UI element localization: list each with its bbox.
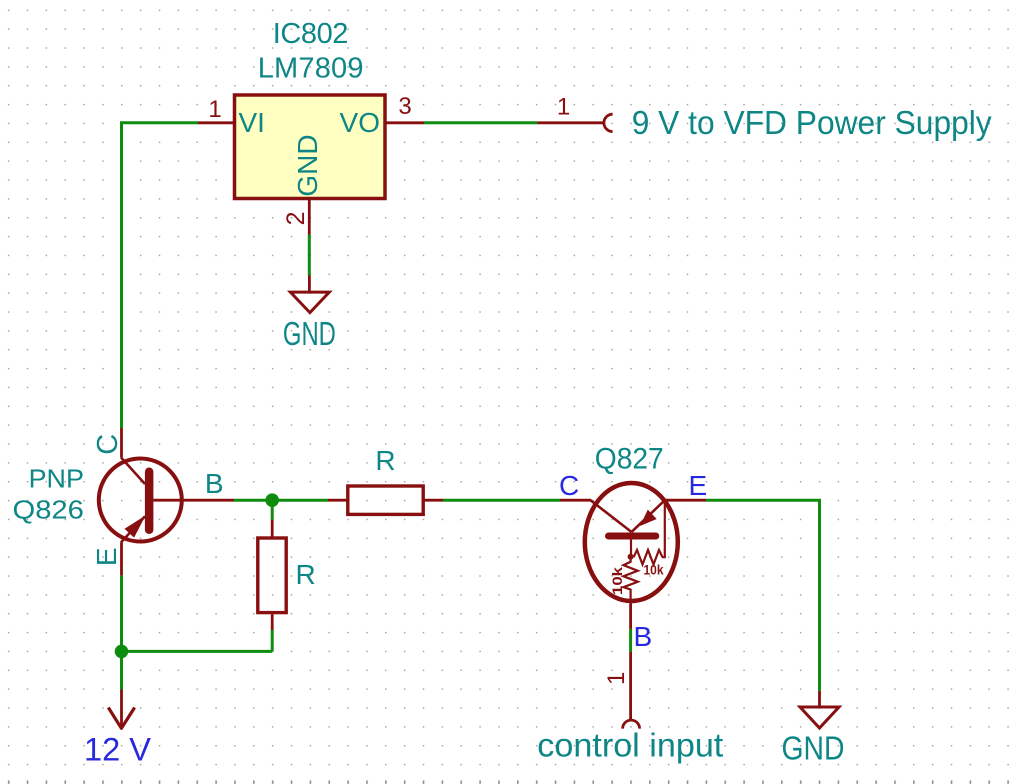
svg-text:C: C [92, 434, 124, 455]
output connector pin (9V) [538, 114, 613, 131]
svg-text:Q827: Q827 [595, 443, 664, 476]
pin 1 VI stub [198, 121, 234, 124]
ground symbol right [800, 691, 839, 728]
wire bottom rail junction to resistor leg [122, 650, 273, 653]
Q827 collector pin [560, 499, 591, 502]
svg-text:VO: VO [340, 107, 380, 138]
regulator U IC802 body [235, 95, 386, 199]
Q826 collector pin [120, 428, 123, 457]
Q827 body ellipse [585, 483, 678, 601]
transistor Q827 (digital PNP with resistors) [560, 483, 706, 629]
wire junction to vertical resistor top [271, 500, 274, 520]
Q827 collector diagonal [591, 500, 632, 532]
wire from VI pin to Q826 collector [122, 123, 199, 428]
svg-text:VI: VI [239, 107, 265, 138]
Q827 emitter internal vertical line [662, 500, 665, 557]
svg-text:1: 1 [603, 672, 630, 685]
Q826 collector diagonal [121, 457, 145, 484]
svg-text:3: 3 [398, 93, 411, 120]
svg-text:E: E [91, 547, 122, 566]
wire horizontal resistor to Q827 collector [443, 499, 560, 502]
Q826 base pin [153, 499, 234, 502]
svg-text:PNP: PNP [29, 464, 84, 494]
resistor R (horizontal) [328, 486, 443, 514]
wire vertical resistor bottom to bottom rail [271, 630, 274, 651]
Q827 emitter diagonal [632, 500, 665, 532]
Q826 emitter arrow [125, 516, 146, 538]
svg-text:GND: GND [283, 315, 336, 352]
wire Q826 emitter down to junction [120, 575, 123, 651]
junction node at base of Q826 / resistor divider [265, 493, 279, 507]
Q827 base pin inside-to-out [629, 604, 632, 629]
Q826 emitter diagonal [121, 516, 145, 542]
transistor Q826 (PNP) [99, 428, 234, 575]
wire base node: Q826 base to junction to R [234, 499, 328, 502]
Q826 base bar [145, 468, 154, 535]
svg-text:IC802: IC802 [273, 18, 349, 50]
pin 3 VO stub [386, 121, 424, 124]
svg-text:Q826: Q826 [13, 495, 84, 525]
Q827 internal base resistor (zigzag vertical) [623, 557, 637, 604]
wire junction down to 12V symbol [120, 651, 123, 689]
svg-text:9 V to VFD Power Supply: 9 V to VFD Power Supply [632, 104, 992, 141]
svg-text:LM7809: LM7809 [258, 53, 364, 85]
resistor R (vertical) [258, 520, 286, 630]
12V power symbol [108, 690, 134, 729]
wire Q827 emitter to GND drop [706, 500, 820, 691]
Q826 emitter pin [120, 543, 123, 576]
svg-text:10k: 10k [610, 566, 625, 595]
svg-text:R: R [296, 559, 316, 590]
control input connector pin [623, 652, 640, 729]
Q826 body circle [99, 459, 182, 542]
svg-text:B: B [634, 621, 653, 652]
Q827 emitter pin [666, 499, 706, 502]
svg-text:R: R [375, 445, 395, 476]
svg-text:control input: control input [537, 727, 723, 764]
Q827 internal resistor to emitter (zigzag) [634, 550, 663, 564]
svg-text:GND: GND [292, 134, 323, 196]
ground symbol below IC [290, 276, 329, 313]
Q827 internal node dot [628, 554, 634, 560]
wire from VO pin to output connector [424, 121, 538, 124]
svg-text:2: 2 [282, 211, 310, 225]
svg-text:C: C [559, 470, 579, 501]
junction node at bottom rail [115, 645, 129, 659]
svg-text:GND: GND [782, 730, 845, 767]
Q827 emitter arrow [640, 510, 657, 526]
svg-text:1: 1 [208, 96, 221, 123]
wire Q827 base pin segment [629, 629, 632, 652]
svg-text:10k: 10k [644, 563, 664, 578]
Q827 bar to node line [630, 540, 632, 557]
Q827 base bar [605, 533, 659, 540]
wire IC GND pin to ground symbol [308, 235, 311, 276]
svg-text:E: E [689, 470, 708, 501]
svg-text:12 V: 12 V [84, 732, 152, 768]
svg-text:B: B [205, 468, 224, 499]
pin 2 GND stub [308, 199, 311, 235]
svg-text:1: 1 [557, 94, 570, 121]
